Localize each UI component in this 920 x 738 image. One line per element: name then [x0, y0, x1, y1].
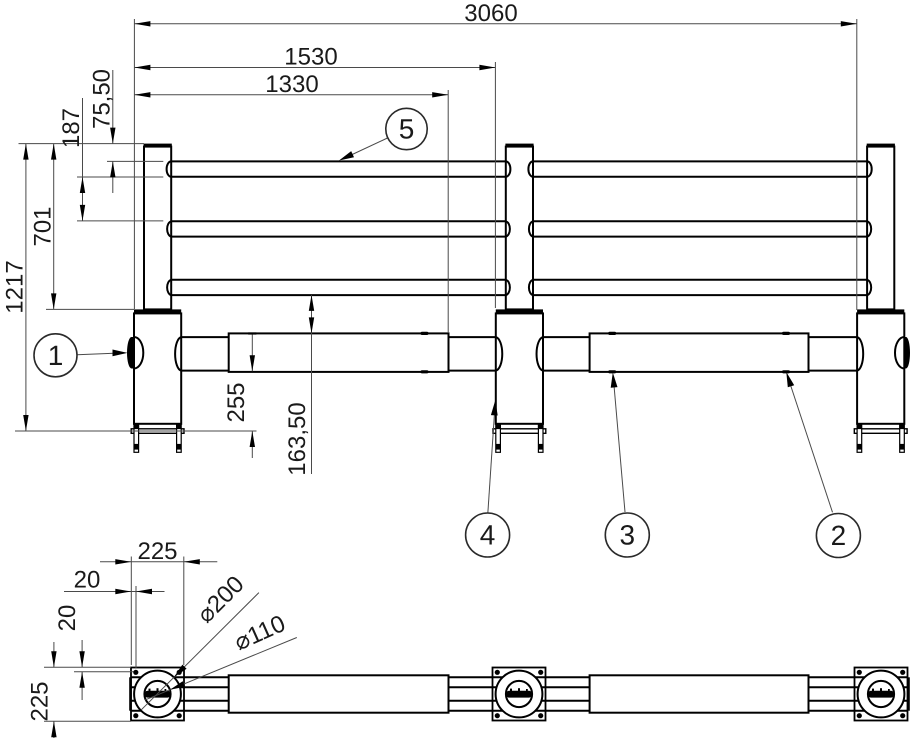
rail segment 1 middle rail: [171, 221, 506, 236]
dimension 3060: [134, 0, 856, 27]
plan view extension lines: [44, 557, 184, 722]
rail end cap arcs at middle post: [506, 161, 533, 295]
svg-text:4: 4: [480, 519, 496, 550]
beam neck cap arcs inside columns: [175, 337, 863, 371]
svg-text:3: 3: [620, 519, 636, 550]
balloon 1: [34, 334, 128, 377]
leader diameter 110: [145, 610, 297, 700]
rail end cap arcs at left post: [167, 161, 172, 295]
plan sleeve 1: [229, 675, 449, 712]
svg-text:75,50: 75,50: [89, 69, 116, 129]
beam neck 1: [181, 337, 229, 371]
svg-text:1: 1: [48, 340, 64, 371]
plan flange circles right: [858, 671, 905, 718]
post cap left: [144, 144, 172, 147]
dimension 225 vertical: [27, 642, 57, 738]
sleeve screw dots: [421, 332, 791, 374]
anchor base left column: [131, 424, 184, 453]
column cap right: [857, 309, 904, 313]
dimension 187: [58, 98, 85, 221]
svg-text:2: 2: [831, 520, 847, 551]
svg-text:1330: 1330: [265, 71, 318, 98]
balloon 5: [339, 108, 427, 160]
beam sleeve 1: [229, 333, 449, 372]
plan flange circles middle: [496, 671, 543, 718]
svg-text:163,50: 163,50: [284, 402, 311, 475]
post right: [867, 147, 894, 310]
dimension 1217: [2, 144, 29, 431]
svg-text:20: 20: [74, 567, 101, 594]
svg-text:1530: 1530: [284, 44, 337, 71]
dimension 20 vertical: [54, 605, 85, 700]
post left: [144, 147, 171, 310]
column left: [134, 313, 181, 423]
dimension 701: [30, 144, 57, 310]
svg-text:225: 225: [27, 681, 54, 721]
rail segment 2 top rail: [533, 161, 867, 176]
plan sleeve 2: [590, 675, 809, 712]
beam neck 4: [809, 337, 858, 371]
dimension 225 horizontal: [100, 538, 217, 565]
beam end cap left: black bar and arc: [127, 337, 134, 369]
column cap left: [134, 309, 181, 313]
plan plate middle: [493, 668, 546, 721]
plan beam end bar left: [129, 677, 132, 710]
post cap middle: [505, 144, 533, 147]
leader diameter 200: [141, 571, 259, 710]
dimension 1530: [134, 44, 495, 71]
plan plate right: [855, 668, 908, 721]
rail segment 1 top rail: [171, 161, 506, 176]
dimension 163,50: [284, 295, 314, 476]
rail end cap arcs at right post: [867, 161, 872, 295]
beam neck 3: [543, 337, 590, 371]
dimension 75,50: [89, 69, 116, 193]
svg-text:5: 5: [399, 113, 415, 144]
beam end cap right: black bar and arc: [904, 337, 910, 369]
column cap middle: [496, 309, 543, 313]
rail segment 2 bottom rail: [533, 280, 867, 295]
plan flange circles left: [134, 671, 181, 718]
svg-text:20: 20: [54, 605, 81, 632]
extension lines left dims: [15, 144, 257, 431]
plan plate left: [131, 668, 184, 721]
plan beam end bar right: [907, 677, 910, 710]
balloon 2: [786, 372, 860, 558]
svg-text:225: 225: [137, 538, 177, 565]
balloon 4: [466, 400, 510, 557]
post cap right: [867, 144, 895, 147]
rail segment 1 bottom rail: [171, 280, 506, 295]
dimension 255: [223, 332, 256, 458]
anchor base middle column: [493, 424, 546, 453]
extension lines top dims: [134, 19, 856, 333]
plan tube 1: [132, 677, 908, 687]
beam neck 2: [449, 337, 496, 371]
svg-text:187: 187: [58, 108, 85, 148]
svg-text:1217: 1217: [2, 260, 29, 313]
post middle: [506, 147, 533, 310]
dimension 1330: [134, 71, 448, 98]
svg-text:255: 255: [223, 382, 250, 422]
plan tube 2: [132, 701, 908, 711]
plan plate corner bolt holes: [133, 670, 905, 719]
svg-text:701: 701: [30, 206, 57, 246]
anchor base right column: [854, 424, 907, 453]
dimension 20 horizontal: [64, 567, 165, 595]
column right: [857, 313, 904, 423]
svg-text:3060: 3060: [464, 0, 517, 27]
rail segment 2 middle rail: [533, 221, 867, 236]
balloon 3: [605, 373, 649, 558]
column middle: [496, 313, 543, 423]
beam sleeve 2: [590, 333, 809, 372]
